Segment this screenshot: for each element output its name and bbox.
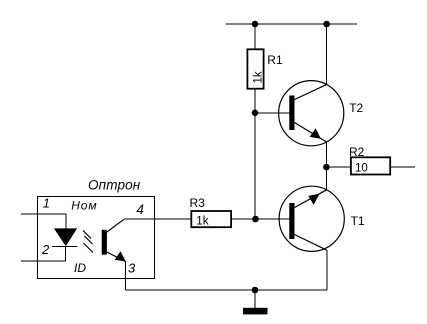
transistor T2 bbox=[279, 81, 344, 146]
light ray 3 bbox=[84, 243, 94, 253]
svg-text:ID: ID bbox=[74, 261, 86, 275]
wire T2 collector up to rail bbox=[326, 24, 328, 85]
wire T2 emitter down to output node bbox=[326, 142, 328, 167]
junction node output (T2e/T1e/R2) bbox=[323, 164, 330, 171]
transistor T1 bbox=[279, 186, 344, 251]
svg-text:R1: R1 bbox=[267, 53, 283, 67]
junction node ground bbox=[252, 287, 259, 294]
wire T1 emitter up to output node bbox=[326, 167, 328, 190]
svg-text:10: 10 bbox=[355, 163, 368, 175]
ground stem bbox=[254, 290, 256, 308]
svg-text:Ном: Ном bbox=[71, 199, 97, 213]
light ray 2 bbox=[85, 236, 93, 244]
resistor R1 bbox=[247, 49, 263, 88]
LED cathode bar bbox=[52, 246, 78, 248]
phototransistor of optocoupler bbox=[102, 219, 126, 261]
junction node R3 / T1 base / R1 bbox=[252, 216, 259, 223]
svg-text:T1: T1 bbox=[351, 214, 365, 228]
wire R3 right lead to node bbox=[232, 218, 256, 220]
LED anode-cathode (diode) bbox=[54, 228, 77, 246]
wire output node to R2 bbox=[326, 166, 351, 168]
svg-text:R3: R3 bbox=[190, 196, 206, 210]
svg-text:R2: R2 bbox=[349, 145, 365, 159]
wire pin 1 lead bbox=[21, 214, 66, 229]
wire pin 3 down bbox=[125, 262, 127, 291]
wire base node to T1 base bbox=[256, 218, 290, 220]
svg-text:3: 3 bbox=[128, 261, 136, 276]
wire optocoupler pin4 to R3 bbox=[124, 218, 192, 220]
junction node at rail / T2 collector bbox=[323, 21, 330, 28]
junction node T2 base bbox=[252, 110, 259, 117]
wire T1 collector down to bottom rail bbox=[326, 250, 328, 290]
svg-text:4: 4 bbox=[136, 202, 144, 217]
junction node at rail / R1 bbox=[252, 21, 259, 28]
wire top supply rail bbox=[226, 23, 358, 25]
wire R1 bottom lead down to base node bbox=[254, 90, 256, 220]
wire T2 base bbox=[255, 112, 289, 114]
svg-text:1k: 1k bbox=[196, 216, 208, 228]
svg-text:Оптрон: Оптрон bbox=[88, 177, 141, 192]
svg-text:1k: 1k bbox=[253, 71, 265, 83]
svg-text:2: 2 bbox=[41, 242, 50, 257]
wire bottom rail bbox=[126, 289, 327, 291]
wire R2 right lead output bbox=[390, 166, 415, 168]
wire R1 top lead bbox=[254, 24, 256, 49]
svg-text:T2: T2 bbox=[349, 101, 363, 115]
svg-text:1: 1 bbox=[43, 195, 50, 210]
resistor R3 bbox=[191, 211, 231, 227]
resistor R2 bbox=[351, 157, 390, 174]
ground symbol bbox=[243, 308, 268, 315]
optocoupler U1 box bbox=[38, 197, 155, 279]
wire LED cathode to pin 2 bbox=[21, 247, 65, 262]
light ray 1 bbox=[83, 231, 91, 239]
